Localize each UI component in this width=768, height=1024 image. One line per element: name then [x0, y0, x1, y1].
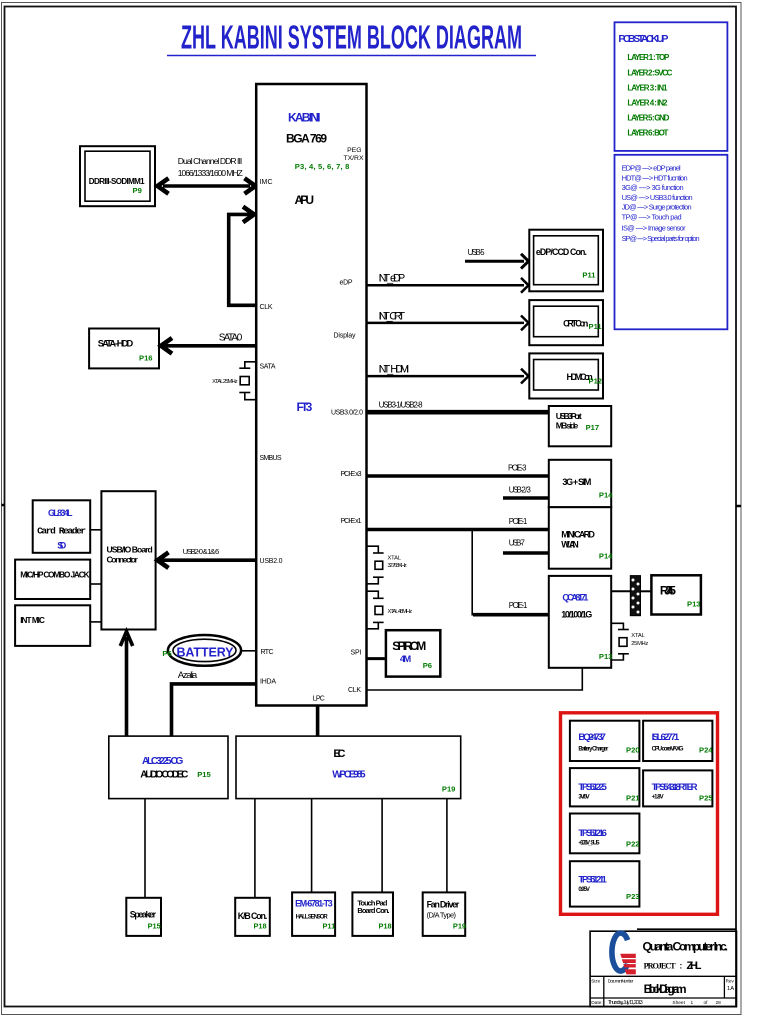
svg-text:P13: P13 [599, 652, 613, 661]
svg-text:P16: P16 [139, 354, 153, 363]
svg-text:25MHz: 25MHz [631, 641, 648, 647]
wire: PCIE-3 [367, 474, 550, 478]
wire: audio arrow up into connector [120, 632, 132, 737]
wire: QCA clock to chip CLK [367, 668, 583, 690]
battery P6 ellipse [162, 635, 241, 666]
EM-6781-T3 hall sensor box [292, 892, 335, 936]
svg-text:IS@ ----> Image sensor: IS@ ----> Image sensor [622, 223, 687, 232]
svg-text:SPI: SPI [351, 650, 362, 657]
svg-text:P11: P11 [589, 322, 603, 331]
svg-text:P3, 4, 5, 6, 7, 8: P3, 4, 5, 6, 7, 8 [295, 162, 350, 171]
svg-text:USB-5: USB-5 [468, 248, 486, 257]
svg-text:APU: APU [295, 193, 315, 207]
svg-text:XTAL: XTAL [388, 556, 402, 562]
legend box (option notes) [615, 155, 728, 329]
svg-text:IMC: IMC [260, 179, 273, 186]
svg-text:32.768KHz: 32.768KHz [388, 563, 407, 569]
svg-text:1066/1333/1600 MHZ: 1066/1333/1600 MHZ [178, 168, 243, 178]
svg-text:Connector: Connector [107, 555, 139, 565]
wire: battery to RTC [241, 650, 256, 652]
svg-text:PCIE-1: PCIE-1 [509, 517, 528, 526]
svg-text:28: 28 [716, 1000, 722, 1006]
wire: card reader to connector [90, 529, 101, 531]
svg-text:PCIE-1: PCIE-1 [509, 601, 528, 610]
svg-text:SMBUS: SMBUS [260, 455, 282, 462]
svg-text:P15: P15 [148, 922, 161, 931]
svg-text:RJ45: RJ45 [660, 584, 676, 598]
svg-text:IHDA: IHDA [260, 679, 276, 686]
svg-text:MIC/HP COMBO JACK: MIC/HP COMBO JACK [20, 570, 89, 579]
wire: memory clock loop arrow [229, 207, 256, 306]
svg-text:0.95V: 0.95V [578, 887, 590, 893]
svg-text:SP@ ----> Special parts fo: SP@ ----> Special parts for option [622, 234, 700, 243]
wire: USB3 bus [367, 410, 550, 415]
title block date row [591, 1000, 721, 1006]
Quanta logo red stripes [620, 954, 636, 975]
svg-text:P13: P13 [687, 600, 701, 609]
wire: INT_HDMI arrow [367, 369, 529, 384]
svg-text:LAYER 2 : SVCC: LAYER 2 : SVCC [627, 69, 672, 78]
svg-text:INT_HDMI: INT_HDMI [379, 363, 410, 375]
PCB STACK UP box [615, 22, 728, 151]
RJ45 magnetics hatched connector [630, 576, 640, 616]
svg-text:ZHL KABINI SYSTEM BLOCK DIAGRA: ZHL KABINI SYSTEM BLOCK DIAGRAM [181, 19, 522, 56]
svg-text:1A: 1A [727, 986, 734, 992]
title: ZHL KABINI SYSTEM BLOCK DIAGRAM [167, 19, 536, 56]
svg-text:P9: P9 [133, 186, 142, 195]
GL834L card reader box [33, 500, 90, 553]
svg-text:PCI-E x1: PCI-E x1 [341, 518, 362, 525]
svg-text:Battery Charger: Battery Charger [578, 746, 609, 752]
crystal XTAL 48MHz [367, 591, 413, 629]
svg-text:P14: P14 [599, 490, 613, 499]
title block project row [644, 960, 702, 972]
svg-text:P15: P15 [197, 770, 211, 779]
eDP/CCD connector box [529, 230, 603, 292]
svg-text:JD@ ----> Surge protectio: JD@ ----> Surge protection [622, 203, 692, 212]
BQ24737 battery charger box [570, 721, 640, 761]
svg-text:MB side: MB side [556, 421, 579, 431]
svg-text:TPS51216: TPS51216 [578, 828, 606, 839]
INT MIC box [15, 605, 90, 646]
wire: Azalia HDA to codec [172, 684, 257, 736]
wire: EC to K/B con [254, 799, 256, 898]
svg-text:LAYER 1 : TOP: LAYER 1 : TOP [627, 53, 670, 62]
ISL62771 CPU core regulator box [643, 721, 713, 761]
svg-text:INT_eDP: INT_eDP [379, 273, 406, 285]
wire: USB-2/3 [503, 496, 549, 500]
svg-text:3G@ ----> 3G function: 3G@ ----> 3G function [622, 183, 684, 192]
svg-text:XTAL 48MHz: XTAL 48MHz [388, 609, 413, 615]
crystal XTAL 25MHz at QCA [611, 623, 648, 660]
svg-text:3G + SIM: 3G + SIM [562, 477, 591, 487]
svg-text:SD: SD [57, 541, 66, 551]
svg-text:eDP: eDP [340, 279, 353, 286]
wire: PCIE-1 to wlan [367, 528, 550, 532]
wire: PCIE-1 branch down to LAN [472, 531, 549, 615]
svg-text:QCA8171: QCA8171 [562, 592, 588, 602]
QCA8171 ethernet box [549, 576, 613, 668]
svg-text:P18: P18 [379, 922, 392, 931]
svg-text:Size: Size [591, 978, 600, 983]
svg-text:EDP@ ----> eDP panel: EDP@ ----> eDP panel [622, 164, 681, 173]
svg-text:Rev: Rev [726, 978, 735, 983]
svg-text:Card Reader: Card Reader [37, 525, 86, 536]
chip right pin labels [313, 279, 363, 702]
svg-text:+1.35V_SUS: +1.35V_SUS [578, 841, 599, 847]
K/B Con. box [235, 898, 270, 936]
svg-text:USB/IO Board: USB/IO Board [107, 544, 153, 554]
svg-text:Dual Channel DDR III: Dual Channel DDR III [178, 156, 243, 166]
svg-text:INT_CRT: INT_CRT [379, 310, 406, 322]
svg-text:P11: P11 [323, 922, 336, 931]
svg-text:USB2.0: USB2.0 [260, 558, 283, 565]
svg-text:LAYER 3 : IN1: LAYER 3 : IN1 [627, 84, 668, 93]
wire: SATA 0 arrow to HDD [161, 338, 256, 354]
MINI CARD WLAN box [549, 507, 613, 569]
wire: INT_eDP arrow [367, 278, 529, 293]
svg-text:XTAL 25MHz: XTAL 25MHz [212, 379, 238, 385]
KABINI APU chip [256, 84, 366, 706]
svg-text:BGA 769: BGA 769 [286, 131, 327, 145]
svg-text:TP@ ----> Touch pad: TP@ ----> Touch pad [622, 213, 682, 222]
3G + SIM box [549, 460, 613, 507]
svg-text:Display: Display [334, 333, 357, 340]
wire: EC to fan driver [446, 799, 448, 893]
DDRIII-SODIMM1 memory box [80, 146, 155, 206]
ALC3225-CG audio codec box [109, 736, 228, 799]
wire: EC to touch pad con [381, 799, 383, 893]
svg-text:LAYER 6 : BOT: LAYER 6 : BOT [627, 129, 668, 138]
MIC/HP COMBO JACK box [15, 560, 90, 599]
Fan Driver box [423, 892, 466, 936]
svg-text:FT3: FT3 [297, 400, 313, 414]
svg-text:TPS51225: TPS51225 [578, 782, 607, 793]
svg-text:(D/A Type): (D/A Type) [427, 911, 456, 920]
wire: SPI to SPI ROM [367, 657, 387, 660]
svg-text:P23: P23 [626, 892, 640, 901]
wire: DDR bus double arrow [158, 178, 256, 194]
wire: USB2.0 arrow to connector [158, 552, 257, 568]
TPS51216 +1.35V_SUS regulator box [570, 814, 640, 854]
svg-text:DDRIII-SODIMM1: DDRIII-SODIMM1 [89, 177, 145, 186]
svg-text:CPU core/VAXG: CPU core/VAXG [652, 746, 684, 752]
svg-text:Fan Driver: Fan Driver [427, 899, 460, 909]
svg-text:CRT Con.: CRT Con. [563, 318, 589, 328]
TPS51211 0.95V regulator box [570, 861, 640, 906]
svg-text:ZHL: ZHL [687, 960, 702, 972]
svg-text:SPI ROM: SPI ROM [392, 639, 426, 653]
svg-text:Date:: Date: [591, 1000, 602, 1006]
TPS51225 3V/5V regulator box [570, 768, 640, 806]
svg-text:EC: EC [333, 748, 345, 760]
net label: Dual Channel DDR III 1066/1333/1600 MHZ [178, 156, 243, 178]
svg-text:SATA 0: SATA 0 [219, 333, 243, 344]
wire: QCA to RJ45 magnetics [611, 590, 630, 592]
svg-text:XTAL: XTAL [631, 633, 645, 639]
svg-text:US@ ----> USB3.0 function: US@ ----> USB3.0 function [622, 193, 693, 202]
title block frame [590, 929, 736, 1007]
svg-text:ALC3225-CG: ALC3225-CG [142, 756, 184, 767]
title block size/docnum labels [591, 978, 734, 992]
svg-text:HALL SENSOR: HALL SENSOR [296, 915, 329, 921]
svg-text:PCB STACK UP: PCB STACK UP [618, 33, 668, 45]
svg-text:P6: P6 [162, 649, 171, 658]
svg-text:K/B Con.: K/B Con. [238, 911, 268, 921]
svg-text:4M: 4M [400, 653, 411, 664]
svg-text:PCI-E x3: PCI-E x3 [341, 471, 362, 478]
svg-text:P20: P20 [626, 746, 640, 755]
svg-text:Board Con.: Board Con. [357, 906, 389, 915]
SATA - HDD box [89, 329, 159, 369]
svg-text:USB-7: USB-7 [509, 538, 525, 547]
svg-text:10/100/1G: 10/100/1G [561, 609, 592, 619]
svg-text:Document Number: Document Number [608, 978, 634, 983]
svg-text:P18: P18 [254, 922, 267, 931]
svg-text:AUDIO CODEC: AUDIO CODEC [140, 770, 188, 781]
Quanta logo blue Q arc [612, 933, 628, 971]
svg-text:1: 1 [691, 1000, 694, 1006]
Speaker box [126, 898, 161, 936]
svg-text::: : [680, 962, 683, 971]
svg-text:CLK: CLK [348, 687, 361, 694]
TPS54318RTER +1.8V regulator box [643, 770, 713, 806]
Touch Pad Board Con. box [352, 892, 393, 936]
svg-text:WPCE985: WPCE985 [332, 769, 366, 780]
USB3 Port MB side box [549, 406, 611, 446]
svg-text:PROJECT: PROJECT [644, 962, 677, 971]
HDMI connector box [529, 353, 603, 398]
crystal XTAL 25MHz at SATA pin [212, 362, 256, 400]
svg-text:USB2-0 & 1& 6: USB2-0 & 1& 6 [183, 547, 220, 556]
wire: int mic to connector [90, 621, 101, 623]
svg-text:TPS54318RTER: TPS54318RTER [652, 782, 698, 793]
svg-text:P25: P25 [699, 793, 713, 802]
svg-text:BQ24737: BQ24737 [578, 732, 606, 743]
svg-text:P14: P14 [599, 552, 613, 561]
svg-text:EM-6781-T3: EM-6781-T3 [295, 898, 333, 908]
svg-text:KABINI: KABINI [288, 110, 321, 124]
SPI ROM box [386, 630, 440, 676]
svg-text:PCIE-3: PCIE-3 [508, 463, 527, 472]
svg-text:USB3 Port: USB3 Port [556, 411, 582, 421]
svg-text:USB-2 / 3: USB-2 / 3 [509, 485, 531, 494]
svg-text:Sheet: Sheet [672, 1000, 685, 1006]
CRT connector box [529, 300, 603, 345]
svg-text:3V/5V: 3V/5V [578, 795, 589, 801]
wire: magnetics to RJ45 [641, 590, 652, 592]
svg-text:GL834L: GL834L [48, 508, 73, 518]
svg-text:BATTERY: BATTERY [177, 645, 235, 659]
svg-text:MINI CARD: MINI CARD [561, 530, 595, 540]
wire: codec to speaker [144, 799, 146, 898]
wire: USB-7 [503, 551, 549, 555]
svg-text:CLK: CLK [260, 304, 273, 311]
svg-text:TX/RX: TX/RX [343, 155, 363, 162]
svg-text:ISL62771: ISL62771 [652, 732, 680, 743]
svg-text:TPS51211: TPS51211 [578, 875, 607, 886]
svg-text:RTC: RTC [261, 649, 274, 656]
svg-text:P24: P24 [699, 746, 713, 755]
svg-text:eDP/CCD Con.: eDP/CCD Con. [536, 247, 587, 257]
svg-text:P19: P19 [442, 784, 456, 793]
svg-text:LAYER 4 : IN2: LAYER 4 : IN2 [627, 99, 668, 108]
svg-text:Speaker: Speaker [130, 909, 157, 919]
USB/IO Board Connector box [101, 491, 155, 629]
svg-text:LPC: LPC [313, 695, 325, 702]
power section red border box [561, 713, 718, 915]
svg-text:P21: P21 [626, 793, 640, 802]
wire: INT_CRT arrow [367, 316, 529, 331]
svg-text:P6: P6 [423, 661, 432, 670]
wire: EC to hall sensor [311, 799, 313, 893]
wire: LPC chip to EC [316, 706, 320, 737]
svg-text:Quanta Computer Inc.: Quanta Computer Inc. [643, 940, 729, 954]
svg-text:P11: P11 [582, 270, 596, 279]
svg-text:SATA - HDD: SATA - HDD [98, 339, 134, 349]
svg-text:INT MIC: INT MIC [20, 616, 45, 625]
svg-text:LAYER 5 : GND: LAYER 5 : GND [627, 114, 669, 123]
svg-text:Block Diagram: Block Diagram [644, 982, 687, 996]
svg-text:HDT@ ----> HDT fucntion: HDT@ ----> HDT fucntion [622, 173, 688, 182]
svg-text:WLAN: WLAN [561, 540, 578, 550]
svg-text:Azalia: Azalia [178, 670, 198, 681]
crystal XTAL 32.768KHz [367, 546, 407, 584]
svg-text:P12: P12 [589, 377, 603, 386]
svg-text:P19: P19 [453, 922, 466, 931]
svg-text:Thursday, July 11, 2013: Thursday, July 11, 2013 [608, 1000, 643, 1006]
svg-text:of: of [704, 1000, 709, 1006]
chip left pin labels [260, 179, 283, 686]
wire: mic/hp jack to connector [90, 583, 101, 585]
svg-text:P17: P17 [586, 423, 600, 432]
svg-text:USB3.0/2.0: USB3.0/2.0 [331, 410, 363, 417]
RJ45 box [651, 575, 701, 614]
wire: USB-5 arrow to eDP/CCD con [465, 254, 529, 269]
EC WPCE985 box [236, 736, 461, 799]
svg-text:SATA: SATA [260, 363, 276, 370]
svg-text:PEG: PEG [347, 147, 361, 154]
svg-text:P22: P22 [626, 839, 640, 848]
svg-text:USB3-1/USB2-8: USB3-1/USB2-8 [379, 400, 424, 409]
svg-text:+1.8V: +1.8V [652, 795, 664, 801]
